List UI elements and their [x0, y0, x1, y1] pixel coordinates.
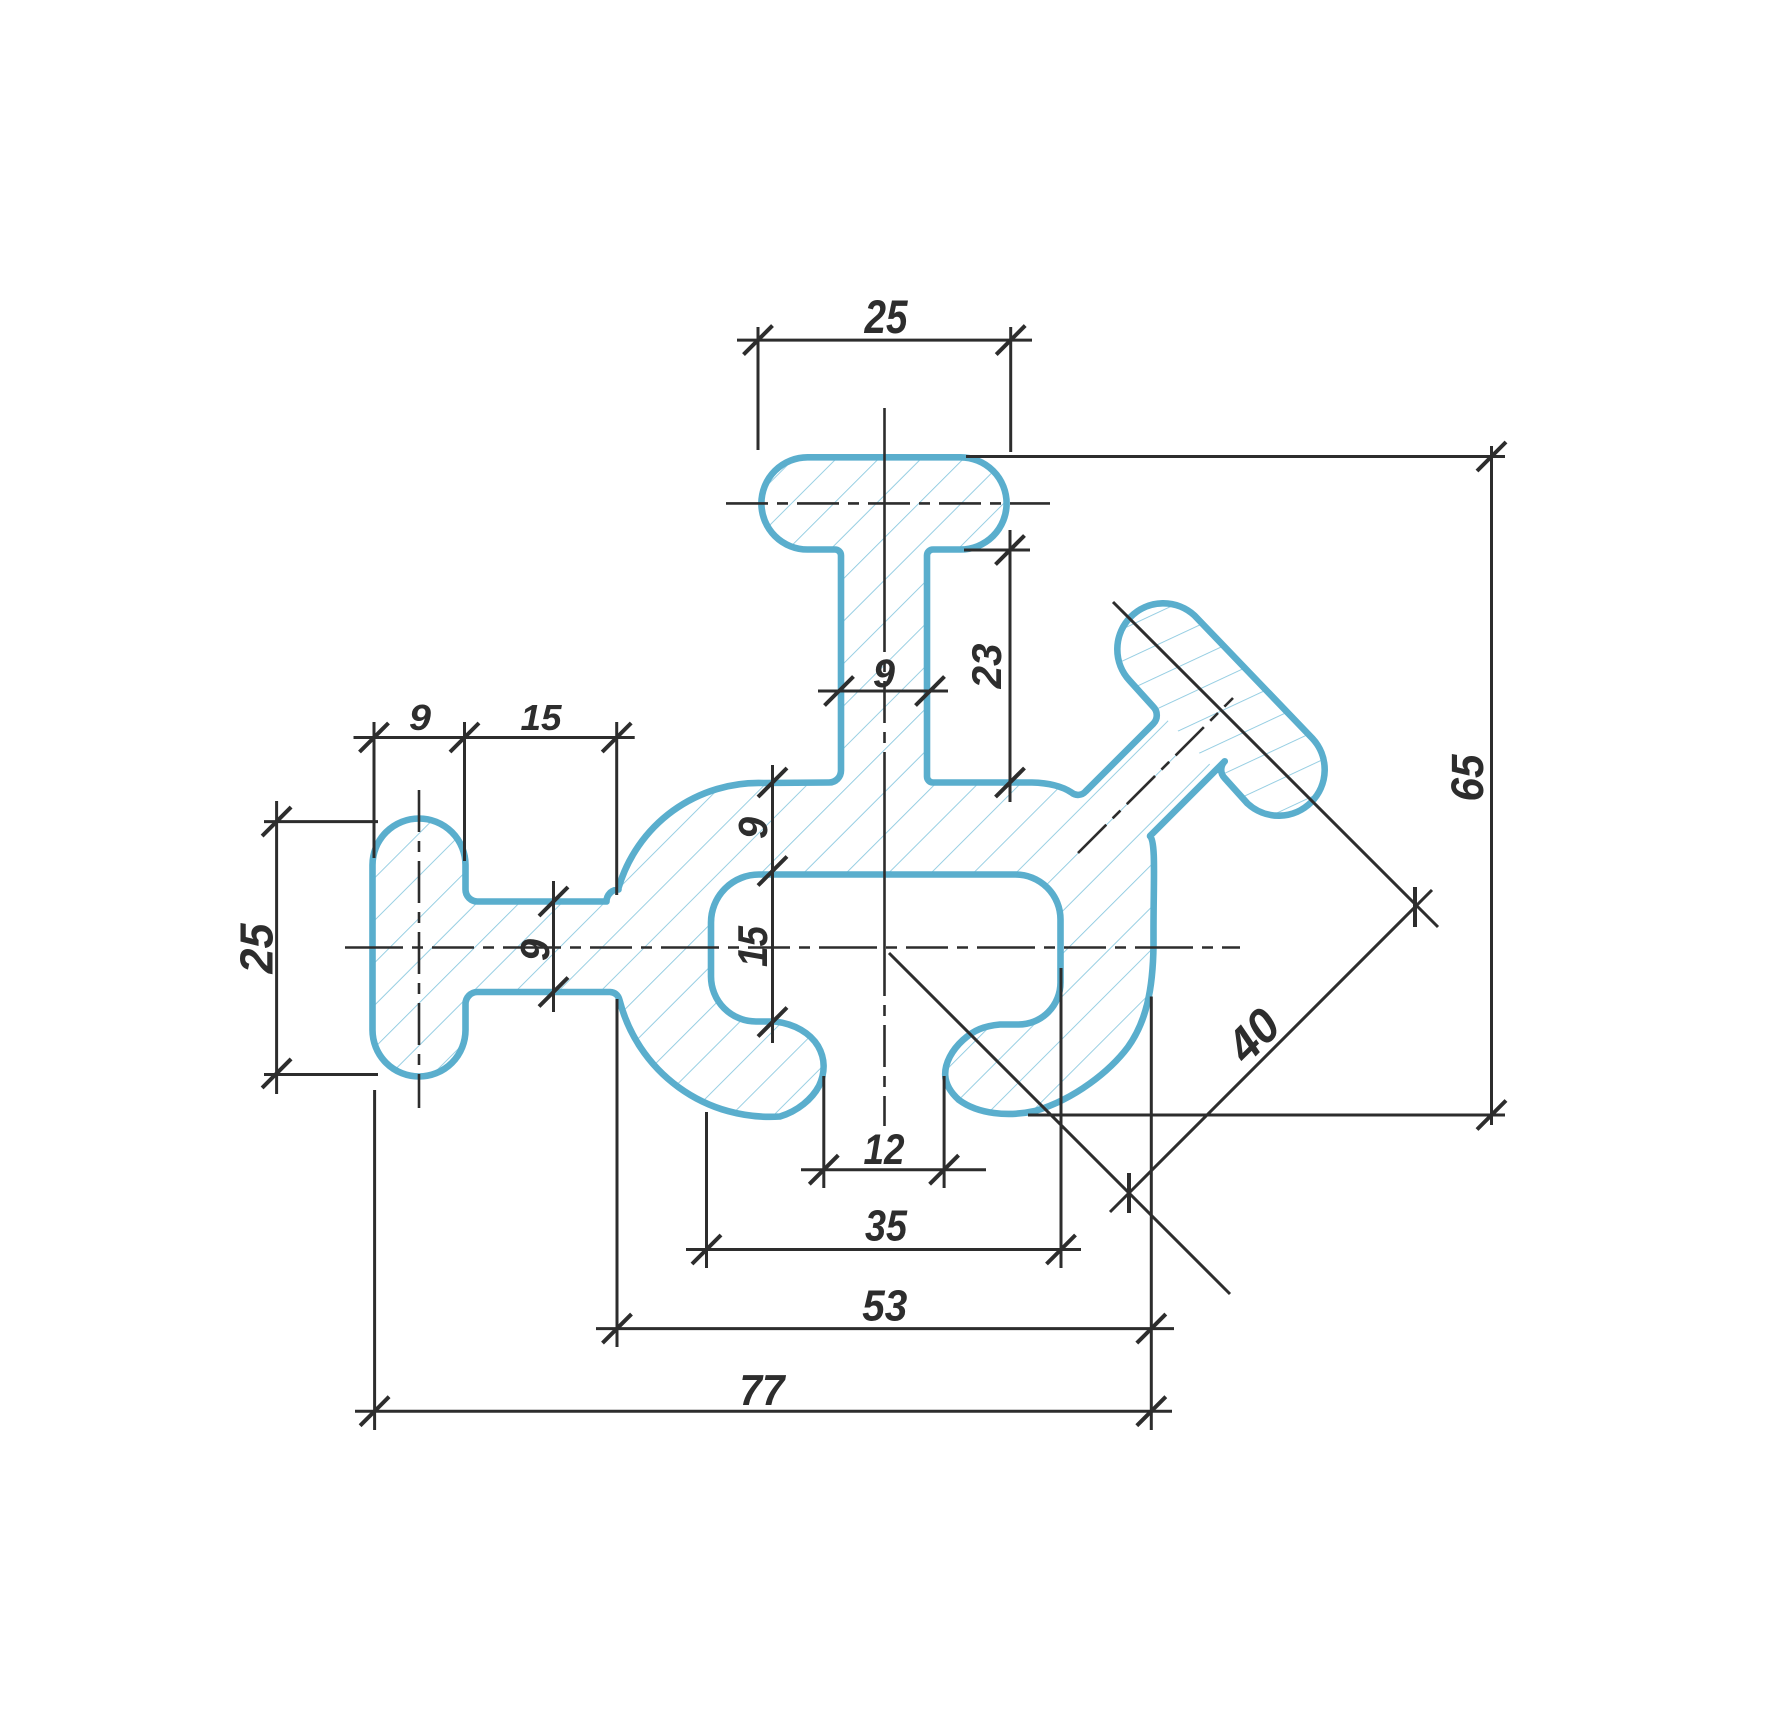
svg-text:65: 65 [1442, 754, 1493, 802]
dim 9 stem: dimension line [818, 690, 948, 693]
dim 53: dimension line [596, 1327, 1174, 1330]
svg-text:25: 25 [864, 290, 909, 343]
dim 25 left: dimension line [275, 801, 278, 1094]
svg-text:9: 9 [730, 817, 776, 839]
centerline: main horizontal axis [345, 946, 1240, 949]
dim 23: extension line top [964, 549, 1030, 552]
profile outline stroke [373, 457, 1325, 1117]
svg-text:23: 23 [963, 644, 1010, 690]
svg-text:15: 15 [729, 925, 776, 967]
dim 65: extension lines [966, 455, 1505, 458]
dim 9/15 top-left: dimension line [354, 736, 635, 739]
dim 15 cavity: tick [758, 1008, 787, 1037]
dim 9/15 top-left: extension lines [373, 722, 376, 858]
dim 12: dimension line [801, 1168, 986, 1171]
dim 77: dimension line [355, 1410, 1172, 1413]
dim 40: dimension line [1110, 890, 1432, 1212]
dim 53: extension lines [616, 999, 619, 1347]
dim 23: dimension line [1009, 530, 1012, 802]
svg-text:9: 9 [512, 939, 558, 961]
dim 12: extension lines [822, 1076, 825, 1188]
centerline: arm axis [1078, 698, 1233, 853]
dim 9 left arm: dimension line [552, 881, 555, 1012]
svg-text:9: 9 [409, 697, 431, 738]
svg-text:35: 35 [865, 1202, 907, 1251]
svg-text:25: 25 [231, 922, 283, 974]
svg-text:15: 15 [521, 697, 563, 738]
dim 25 top: dimension line [737, 339, 1032, 342]
dim 40: extension line L1 (capsule axis) [1113, 602, 1438, 927]
head capsule region: re-hatched at opposite angle [1117, 603, 1324, 815]
dim 25 left: extension lines [264, 820, 378, 823]
profile cross-section: hatched fill [373, 457, 1325, 1117]
dim 77: extension line left [373, 1090, 376, 1430]
svg-text:12: 12 [864, 1126, 905, 1174]
svg-text:77: 77 [740, 1366, 787, 1415]
dim 65: dimension line [1490, 446, 1493, 1125]
dim 40: extension line L2 (through body center) [889, 953, 1230, 1294]
svg-text:53: 53 [862, 1282, 907, 1331]
centerline: main vertical axis [883, 408, 886, 1126]
centerline: left capsule vertical [418, 790, 421, 1108]
svg-text:9: 9 [873, 652, 896, 696]
dim 35: extension lines [705, 1112, 708, 1268]
dim 9 wall: dimension line [771, 765, 774, 1043]
dim 25 top: extension lines [757, 327, 760, 450]
dim 35: dimension line [686, 1248, 1081, 1251]
centerline: top capsule horizontal [726, 502, 1050, 505]
